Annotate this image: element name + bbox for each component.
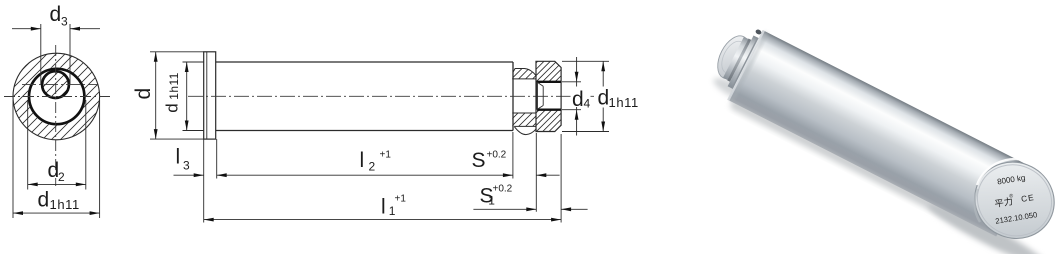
svg-text:d: d	[572, 88, 584, 111]
svg-text:4: 4	[584, 97, 591, 111]
pin left end face	[711, 31, 755, 84]
svg-text:1h11: 1h11	[609, 95, 639, 110]
svg-text:1: 1	[389, 204, 396, 218]
svg-text:+0.2: +0.2	[487, 150, 507, 161]
dimension d4	[562, 57, 581, 136]
horizontal centerline	[4, 96, 111, 98]
face top rim highlight	[977, 159, 1043, 185]
svg-text:S: S	[472, 149, 486, 172]
dimension l1 row	[204, 219, 561, 221]
vertical centerline	[55, 45, 57, 186]
dimension S1 row	[473, 134, 587, 223]
svg-text:3: 3	[183, 159, 190, 173]
svg-text:d: d	[598, 87, 610, 110]
outer circle d1	[13, 53, 100, 140]
pin right end face	[962, 149, 1060, 253]
svg-text:2: 2	[58, 170, 65, 184]
groove bottom protruding arc	[514, 127, 536, 135]
dimension d3	[12, 24, 100, 84]
dimension d1h11 (body)	[183, 62, 204, 131]
main centerline	[188, 95, 600, 97]
groove bottom lower line	[514, 125, 536, 127]
svg-text:2: 2	[369, 160, 376, 174]
face lower-left inner shade	[975, 189, 980, 222]
head hatch top	[509, 50, 593, 90]
dimension d (flange)	[150, 52, 204, 139]
dimension d2	[28, 100, 86, 190]
groove bottom floor	[512, 112, 536, 114]
pin body left step shade	[729, 31, 768, 102]
svg-text:d: d	[163, 103, 182, 112]
svg-text:l: l	[360, 149, 365, 172]
svg-text:1: 1	[488, 194, 495, 208]
svg-text:l: l	[176, 146, 181, 169]
svg-text:d: d	[50, 3, 62, 26]
bore circle d2 (thick)	[29, 69, 84, 124]
svg-text:d: d	[38, 189, 50, 212]
pin cap cylinder	[723, 37, 748, 80]
pin cross hole	[755, 29, 762, 36]
svg-text:1h11: 1h11	[50, 197, 80, 212]
svg-text:+1: +1	[380, 150, 392, 161]
dimension d1h11 right	[562, 61, 609, 131]
pin cap face inner ring	[717, 37, 750, 76]
svg-text:l: l	[381, 196, 386, 219]
dimension l3 / l2 / S row	[174, 132, 560, 223]
head outline	[536, 61, 561, 131]
flange outline	[204, 52, 216, 139]
svg-text:1h11: 1h11	[167, 72, 181, 99]
hatch: annulus between d1 and d2	[0, 0, 228, 228]
face engraving text	[989, 172, 1038, 226]
bore blind end	[536, 82, 538, 110]
dimension d1h11	[13, 100, 100, 218]
body top line	[216, 61, 513, 63]
pin collar right dark edge	[731, 37, 758, 88]
svg-text:+1: +1	[395, 194, 407, 205]
pin main body	[727, 30, 1031, 236]
bore chamfer lines	[537, 82, 543, 109]
groove bottom hatch	[494, 100, 559, 130]
bore d4 thick top	[537, 81, 562, 83]
hatch: inside pin d3	[10, 10, 165, 165]
body end line	[512, 62, 514, 131]
groove top floor	[512, 78, 536, 80]
face chamfer ring	[965, 152, 1060, 248]
pin circle d3 (thick)	[42, 71, 69, 98]
head hatch bottom	[509, 100, 593, 140]
svg-text:3: 3	[61, 15, 68, 29]
flange inner edge line	[206, 52, 208, 139]
pin cast shadow	[703, 73, 1055, 254]
body bottom line	[216, 130, 513, 132]
pin cap groove ring	[727, 39, 751, 82]
svg-text:+0.2: +0.2	[493, 184, 513, 195]
pin body left end rim light	[727, 30, 765, 101]
groove top outline	[513, 69, 536, 76]
d3 pin axis line	[22, 84, 97, 86]
pin collar ring	[728, 35, 759, 88]
groove top hatch	[499, 55, 557, 85]
bore d4 thick bottom	[537, 108, 561, 110]
svg-text:d: d	[132, 88, 155, 100]
